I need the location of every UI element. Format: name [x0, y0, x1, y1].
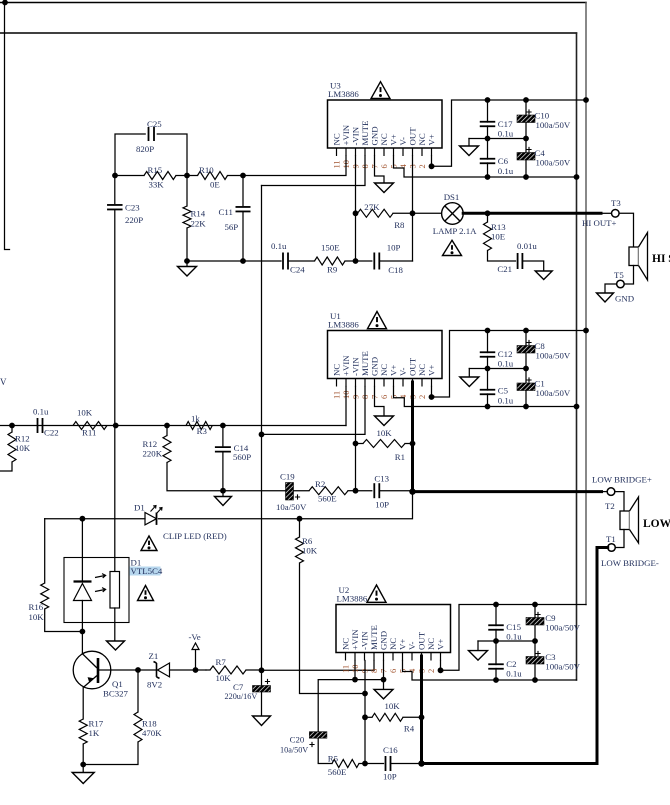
svg-text:R6: R6	[302, 536, 313, 546]
resistor R3	[186, 422, 212, 430]
U2 pin 10 (+VIN) stub	[354, 653, 356, 661]
wire U1 mid cap rail	[469, 368, 526, 370]
wire LOW speaker to T1	[615, 530, 624, 548]
U3 pin 9 (-VIN) stub	[355, 148, 357, 156]
wire clip row to R16/opto	[45, 518, 145, 520]
svg-text:11: 11	[341, 665, 351, 673]
svg-text:C21: C21	[497, 264, 512, 274]
node C17 top	[485, 97, 491, 103]
node R10 right / C11 top	[240, 173, 246, 179]
node U1 V- rail with V- bus	[574, 404, 580, 410]
svg-text:NC: NC	[332, 133, 342, 145]
svg-text:150E: 150E	[321, 243, 340, 253]
svg-text:NC: NC	[426, 638, 436, 650]
wire ground rail under R14/C11	[187, 260, 281, 262]
svg-text:T3: T3	[611, 198, 621, 208]
node R18 top	[135, 667, 141, 673]
svg-text:R2: R2	[315, 479, 325, 489]
capacitor C24	[282, 253, 284, 270]
svg-text:D1: D1	[134, 503, 145, 513]
capacitor C13	[356, 490, 372, 492]
svg-text:C6: C6	[498, 156, 509, 166]
resistor R15	[144, 172, 176, 180]
svg-text:LM3886: LM3886	[337, 594, 368, 604]
svg-text:NC: NC	[388, 638, 398, 650]
LED D1 clip indicator	[145, 513, 157, 525]
svg-text:R3: R3	[197, 426, 208, 436]
capacitor C7 electrolytic	[261, 670, 263, 685]
terminal T5	[617, 280, 625, 288]
svg-text:27K: 27K	[364, 202, 380, 212]
wire LOW BRIDGE+ bold	[413, 490, 602, 493]
wire U1 -VIN column	[355, 387, 357, 491]
node C17 bottom	[485, 136, 491, 142]
capacitor C1 electrolytic	[525, 369, 527, 384]
svg-text:6: 6	[388, 669, 398, 673]
capacitor C19 electrolytic	[286, 483, 294, 501]
svg-text:0.1u: 0.1u	[271, 241, 287, 251]
svg-text:0.1u: 0.1u	[33, 407, 49, 417]
wire U3 V+ pin1 riser	[432, 100, 587, 166]
warning symbol above U3	[371, 82, 390, 99]
svg-text:22K: 22K	[191, 219, 207, 229]
wire mute rail to U2 MUTE	[262, 669, 375, 671]
node R11 right / C23-LDR column	[113, 423, 119, 429]
wire U3 GND jog	[375, 156, 385, 183]
lamp DS1	[413, 212, 442, 214]
wire HI OUT bold	[463, 212, 601, 215]
U2 pin 6 (NC) stub	[392, 653, 394, 661]
wire U2 mid cap rail	[478, 640, 535, 642]
wire U1 V- jog to rail	[394, 387, 577, 407]
svg-text:T5: T5	[614, 270, 624, 280]
wire U3 V- jog to rail	[394, 156, 577, 177]
svg-text:C22: C22	[44, 428, 59, 438]
speaker HI	[629, 247, 639, 266]
svg-text:0E: 0E	[210, 180, 220, 190]
node C10 bottom	[523, 136, 529, 142]
capacitor C23	[114, 176, 116, 204]
capacitor C8 electrolytic	[525, 331, 527, 346]
svg-text:R18: R18	[142, 719, 157, 729]
node R6 top on clip row	[297, 516, 303, 522]
svg-text:C3: C3	[545, 652, 556, 662]
svg-text:100a/50V: 100a/50V	[536, 351, 571, 361]
svg-text:T2: T2	[605, 501, 615, 511]
svg-text:NC: NC	[332, 364, 342, 376]
node R2 right / -VIN / C13 left	[353, 488, 359, 494]
wire T3 to HI speaker	[619, 213, 633, 247]
wire U1 V+ pin1 riser	[432, 331, 587, 398]
svg-text:R12: R12	[15, 434, 30, 444]
svg-text:MUTE: MUTE	[360, 121, 370, 146]
wire T5 to ground	[605, 284, 617, 293]
svg-text:OUT: OUT	[408, 357, 418, 376]
node C10 top	[523, 97, 529, 103]
svg-text:100a/50V: 100a/50V	[536, 388, 571, 398]
ground symbol U3 caps	[468, 139, 470, 147]
node C11 bottom rail	[240, 258, 246, 264]
node U2 OUT / R4	[419, 714, 425, 720]
svg-text:560E: 560E	[328, 767, 347, 777]
U1 pin 5 (V+) stub	[393, 379, 395, 387]
capacitor C22	[37, 418, 39, 433]
svg-text:10K: 10K	[302, 546, 318, 556]
node R8 right / OUT	[410, 210, 416, 216]
svg-text:R14: R14	[191, 209, 206, 219]
node U2 GND	[381, 677, 387, 683]
capacitor C17	[487, 100, 489, 122]
svg-text:10K: 10K	[385, 701, 401, 711]
U1 pin 3 (OUT) stub	[412, 379, 414, 387]
op-amp U2 LM3886 body	[336, 605, 451, 653]
opto light arrows	[95, 574, 106, 578]
svg-text:0.1u: 0.1u	[506, 632, 522, 642]
svg-text:10P: 10P	[387, 243, 401, 253]
wire U2 V+ pin1 riser	[441, 605, 587, 671]
capacitor C14	[222, 426, 224, 446]
svg-text:R15: R15	[148, 165, 163, 175]
resistor R10	[198, 172, 228, 180]
capacitor C21	[517, 253, 519, 269]
svg-text:V+: V+	[427, 134, 437, 145]
svg-text:-Ve: -Ve	[189, 632, 201, 642]
svg-text:470K: 470K	[142, 728, 162, 738]
U3 pin 4 (V-) stub	[402, 148, 404, 156]
U3 pin 1 (V+) stub	[431, 148, 433, 156]
svg-text:220u/16V: 220u/16V	[225, 692, 258, 701]
capacitor C15	[495, 605, 497, 626]
svg-text:R4: R4	[404, 724, 415, 734]
node R17/R18 bottom	[80, 762, 86, 768]
node C12 bottom	[485, 366, 491, 372]
svg-text:R9: R9	[327, 265, 338, 275]
svg-text:100a/50V: 100a/50V	[545, 662, 580, 672]
U3 pin 8 (MUTE) stub	[364, 148, 366, 156]
wire U2 V- jog to rail	[403, 661, 577, 681]
U3 pin 6 (NC) stub	[383, 148, 385, 156]
wire U3 mid cap rail	[469, 138, 526, 140]
svg-text:56P: 56P	[225, 222, 239, 232]
svg-text:C20: C20	[290, 735, 305, 745]
node C9 bottom	[532, 638, 538, 644]
svg-text:R13: R13	[491, 222, 506, 232]
op-amp U1 LM3886 body	[328, 331, 443, 379]
wire U2 +VIN	[354, 661, 356, 680]
svg-text:NC: NC	[379, 133, 389, 145]
svg-text:NC: NC	[379, 364, 389, 376]
U2 pin 4 (V-) stub	[411, 653, 413, 661]
svg-text:Q1: Q1	[112, 679, 123, 689]
node C1 bottom	[523, 404, 529, 410]
optocoupler D1 VTL5C4 box	[64, 558, 129, 623]
opto LDR element	[114, 426, 116, 572]
wire U1 GND jog	[375, 387, 385, 417]
svg-text:8V2: 8V2	[147, 680, 162, 690]
svg-text:100a/50V: 100a/50V	[536, 120, 571, 130]
svg-text:LAMP 2.1A: LAMP 2.1A	[433, 226, 477, 236]
svg-text:-VIN: -VIN	[360, 631, 370, 650]
node U3 V- rail with V- bus	[574, 174, 580, 180]
svg-text:DS1: DS1	[444, 192, 460, 202]
U3 pin 2 (NC) stub	[421, 148, 423, 156]
capacitor C11	[242, 176, 244, 206]
ground symbol C7	[253, 716, 271, 726]
node opto LED top	[80, 516, 86, 522]
wire C14 gnd row to C19	[223, 490, 286, 492]
node R1 left	[353, 441, 359, 447]
node U2 OUT / C16 / LOW BRIDGE-	[418, 760, 424, 766]
wire HI speaker to T5	[624, 266, 633, 285]
U3 pin 11 (NC) stub	[336, 148, 338, 156]
-Ve arrow	[195, 650, 197, 671]
svg-text:0.1u: 0.1u	[498, 166, 514, 176]
U3 pin 7 (GND) stub	[374, 148, 376, 156]
svg-text:10K: 10K	[377, 428, 393, 438]
svg-text:8: 8	[369, 669, 379, 673]
wire left edge stub	[5, 3, 10, 250]
svg-text:C11: C11	[219, 207, 233, 217]
U3 pin 10 (+VIN) stub	[345, 148, 347, 156]
svg-text:220P: 220P	[125, 215, 143, 225]
svg-text:C4: C4	[535, 148, 546, 158]
node C12 top	[485, 328, 491, 334]
ground symbol under R14	[186, 261, 188, 267]
svg-text:GND: GND	[370, 126, 380, 145]
svg-text:0.01u: 0.01u	[517, 241, 537, 251]
svg-text:C8: C8	[535, 341, 546, 351]
ground symbol U1	[375, 416, 394, 426]
U2 pin 8 (MUTE) stub	[373, 653, 375, 661]
capacitor C6	[487, 139, 489, 160]
warning symbol above U1	[368, 312, 387, 329]
U1 pin 6 (NC) stub	[383, 379, 385, 387]
svg-text:R16: R16	[29, 602, 44, 612]
svg-text:C1: C1	[535, 379, 545, 389]
svg-text:V+: V+	[436, 639, 446, 650]
svg-text:V+: V+	[389, 134, 399, 145]
svg-text:C18: C18	[388, 265, 403, 275]
capacitor C25	[115, 134, 145, 176]
node C8 top	[523, 328, 529, 334]
terminal T2	[607, 488, 615, 496]
wire V- bus (net V-)	[0, 32, 577, 34]
svg-text:V-: V-	[398, 137, 408, 146]
svg-text:LOW: LOW	[643, 518, 670, 530]
U1 pin 8 (MUTE) stub	[364, 379, 366, 387]
wire U3 -VIN feedback column	[355, 156, 357, 261]
wire U2 -VIN column	[364, 661, 366, 764]
svg-text:C10: C10	[535, 111, 550, 121]
node U1 OUT / C13 / LOW BRIDGE+	[409, 488, 415, 494]
svg-text:C5: C5	[498, 386, 509, 396]
svg-text:10a/50V: 10a/50V	[276, 502, 307, 512]
node R14 bottom rail	[184, 258, 190, 264]
U2 pin 7 (GND) stub	[383, 653, 385, 661]
svg-text:LM3886: LM3886	[328, 320, 359, 330]
svg-text:+VIN: +VIN	[341, 124, 351, 145]
svg-text:R7: R7	[216, 657, 227, 667]
svg-text:C2: C2	[506, 659, 516, 669]
U3 pin 5 (V+) stub	[393, 148, 395, 156]
capacitor C5	[487, 369, 489, 391]
wire V+ bus top (net V+)	[0, 2, 586, 4]
node C2 bottom	[493, 677, 499, 683]
wire V+ bus right vertical	[585, 3, 587, 605]
wire input row to U1 +VIN	[0, 425, 346, 427]
svg-text:11: 11	[332, 160, 342, 168]
node R15-R10 / R14 / C25 right	[184, 173, 190, 179]
node U2 +VIN / gnd rail	[352, 677, 358, 683]
svg-text:C17: C17	[498, 119, 513, 129]
wire U3 +VIN to R10 node	[243, 156, 346, 176]
svg-text:CLIP LED (RED): CLIP LED (RED)	[163, 531, 227, 541]
node R5 / C16 / R4 column	[362, 761, 368, 767]
svg-text:10K: 10K	[77, 408, 93, 418]
svg-text:C24: C24	[290, 265, 305, 275]
ground symbol T5	[597, 293, 614, 302]
svg-text:GND: GND	[370, 357, 380, 376]
warning symbol above U2	[367, 585, 386, 602]
ground symbol C14	[222, 491, 224, 497]
node C3 bottom	[532, 677, 538, 683]
svg-text:MUTE: MUTE	[369, 625, 379, 650]
svg-text:C9: C9	[545, 613, 556, 623]
svg-text:2: 2	[417, 395, 427, 399]
node R8 left	[353, 210, 359, 216]
wire mute rail vertical	[261, 186, 263, 671]
resistor R6	[299, 519, 301, 537]
svg-text:R8: R8	[394, 220, 405, 230]
resistor R8	[358, 209, 394, 217]
resistor R16	[44, 519, 46, 583]
terminal T3	[612, 210, 620, 218]
svg-text:2: 2	[426, 669, 436, 673]
node R1 right	[410, 441, 416, 447]
resistor R11	[73, 422, 107, 430]
resistor R1	[363, 440, 405, 448]
svg-text:NC: NC	[417, 133, 427, 145]
capacitor C20 electrolytic	[309, 732, 327, 739]
ground symbol LDR	[107, 641, 125, 650]
resistor R13	[487, 213, 489, 222]
node -Ve / R7	[193, 667, 199, 673]
svg-text:6: 6	[379, 164, 389, 168]
warning symbol under clip LED	[141, 536, 157, 551]
svg-text:R10: R10	[199, 165, 214, 175]
node U2 V+ corner	[438, 667, 444, 673]
svg-text:T1: T1	[606, 534, 616, 544]
capacitor C12	[487, 331, 489, 353]
svg-text:NC: NC	[341, 638, 351, 650]
svg-text:-VIN: -VIN	[351, 357, 361, 376]
capacitor C9 electrolytic	[534, 605, 536, 618]
node opto LED / R16 bottom / Q1 base	[80, 629, 86, 635]
node C8 bottom	[523, 366, 529, 372]
svg-text:C13: C13	[374, 474, 389, 484]
U2 pin 2 (NC) stub	[430, 653, 432, 661]
U2 pin 3 (OUT) stub	[421, 653, 423, 661]
svg-text:LOW BRIDGE+: LOW BRIDGE+	[592, 475, 652, 485]
svg-text:0.1u: 0.1u	[506, 669, 522, 679]
U3 pin 3 (OUT) stub	[412, 148, 414, 156]
node V+ bus top-left junction	[2, 0, 8, 5]
node C15 top	[493, 602, 499, 608]
resistor R2	[309, 487, 348, 495]
svg-text:GND: GND	[379, 631, 389, 650]
node U1 V+ corner	[429, 394, 435, 400]
U1 pin 4 (V-) stub	[402, 379, 404, 387]
U1 pin 7 (GND) stub	[374, 379, 376, 387]
ground symbol U2	[374, 689, 393, 699]
svg-text:V+: V+	[427, 365, 437, 376]
svg-text:C15: C15	[506, 622, 521, 632]
ground symbol U1 caps	[468, 369, 470, 378]
svg-text:+VIN: +VIN	[341, 355, 351, 376]
svg-text:C25: C25	[147, 119, 162, 129]
svg-text:NC: NC	[417, 364, 427, 376]
ground symbol U2 caps	[477, 641, 479, 651]
svg-text:10P: 10P	[383, 772, 397, 782]
U1 pin 2 (NC) stub	[421, 379, 423, 387]
ground symbol C21	[535, 271, 552, 280]
svg-text:6: 6	[379, 395, 389, 399]
resistor R14	[186, 176, 188, 207]
svg-text:10E: 10E	[491, 232, 505, 242]
resistor R5	[332, 760, 359, 768]
svg-text:1K: 1K	[89, 728, 100, 738]
wire Q1 emitter to R17	[82, 687, 84, 719]
node R4 left	[362, 714, 368, 720]
node mute rail / R7 / C7	[259, 667, 265, 673]
transistor Q1 BC327	[81, 632, 83, 654]
node C4 bottom	[523, 174, 529, 180]
resistor R17	[79, 719, 87, 744]
svg-text:BC327: BC327	[103, 689, 129, 699]
wire U3 OUT column	[412, 156, 414, 261]
svg-text:V+: V+	[398, 639, 408, 650]
svg-text:HI OUT+: HI OUT+	[582, 218, 617, 228]
svg-text:V: V	[0, 377, 7, 387]
svg-text:560E: 560E	[318, 494, 337, 504]
resistor R7	[210, 666, 246, 674]
node U3 V+ rail with V+ bus	[583, 97, 589, 103]
node R9 / C18 / -VIN junction	[353, 258, 359, 264]
svg-text:+VIN: +VIN	[350, 629, 360, 650]
op-amp U3 LM3886 body	[328, 100, 443, 148]
svg-text:OUT: OUT	[408, 127, 418, 146]
warning symbol under DS1	[443, 240, 462, 255]
capacitor C10 electrolytic	[525, 100, 527, 115]
svg-text:R1: R1	[395, 452, 405, 462]
svg-text:GND: GND	[615, 294, 634, 304]
svg-text:MUTE: MUTE	[360, 351, 370, 376]
resistor R12 220K	[166, 426, 168, 436]
node input left R12 tap	[9, 423, 15, 429]
wire U1 OUT bold	[411, 382, 414, 492]
capacitor C3 electrolytic	[534, 641, 536, 657]
wire Q1 collector row	[99, 669, 156, 671]
U1 pin 10 (+VIN) stub	[345, 379, 347, 387]
svg-text:560P: 560P	[233, 452, 251, 462]
svg-text:0.1u: 0.1u	[498, 129, 514, 139]
svg-text:V-: V-	[407, 641, 417, 650]
svg-text:HI S: HI S	[652, 253, 670, 265]
ground symbol R17	[82, 765, 84, 773]
svg-text:100a/50V: 100a/50V	[545, 623, 580, 633]
wire U1 MUTE to mute rail	[262, 387, 366, 435]
svg-text:33K: 33K	[149, 180, 165, 190]
